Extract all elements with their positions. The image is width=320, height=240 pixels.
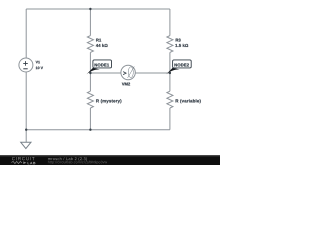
wire top horizontal [26, 8, 170, 10]
footer text line 1 [48, 157, 87, 161]
wire right vertical R3 to node2 [169, 52, 171, 73]
wire right vertical above R3 [169, 9, 171, 36]
wire middle vertical R1 to node1 [89, 52, 91, 73]
resistor R (variable) [167, 91, 201, 108]
resistor R (mystery) [87, 91, 121, 108]
wire middle vertical above R1 [89, 9, 91, 36]
wire ground stem [25, 130, 27, 143]
junction bottom left [25, 129, 27, 131]
wire middle vertical below R mystery [89, 108, 91, 130]
wire left vertical lower [25, 72, 27, 130]
voltage source V1 [19, 58, 43, 72]
footer logo CIRCUIT LAB [11, 157, 35, 164]
wire voltmeter left [90, 72, 121, 74]
wire left vertical upper [25, 9, 27, 58]
wire bottom horizontal [26, 129, 170, 131]
voltmeter VM2 [121, 65, 135, 85]
junction node1 [89, 72, 91, 74]
wire right vertical node2 to R variable [169, 73, 171, 91]
junction top middle [89, 8, 91, 10]
node NODE1 [86, 60, 111, 75]
wire voltmeter right [135, 72, 170, 74]
resistor R1 [87, 36, 107, 53]
footer bar [0, 155, 220, 165]
ground [21, 142, 31, 148]
wire right vertical below R variable [169, 108, 171, 130]
junction node2 [169, 72, 171, 74]
resistor R3 [167, 36, 188, 53]
wire middle vertical node1 to R mystery [89, 73, 91, 91]
footer text line 2 [48, 161, 107, 164]
junction bottom middle [89, 129, 91, 131]
node NODE2 [166, 60, 191, 75]
